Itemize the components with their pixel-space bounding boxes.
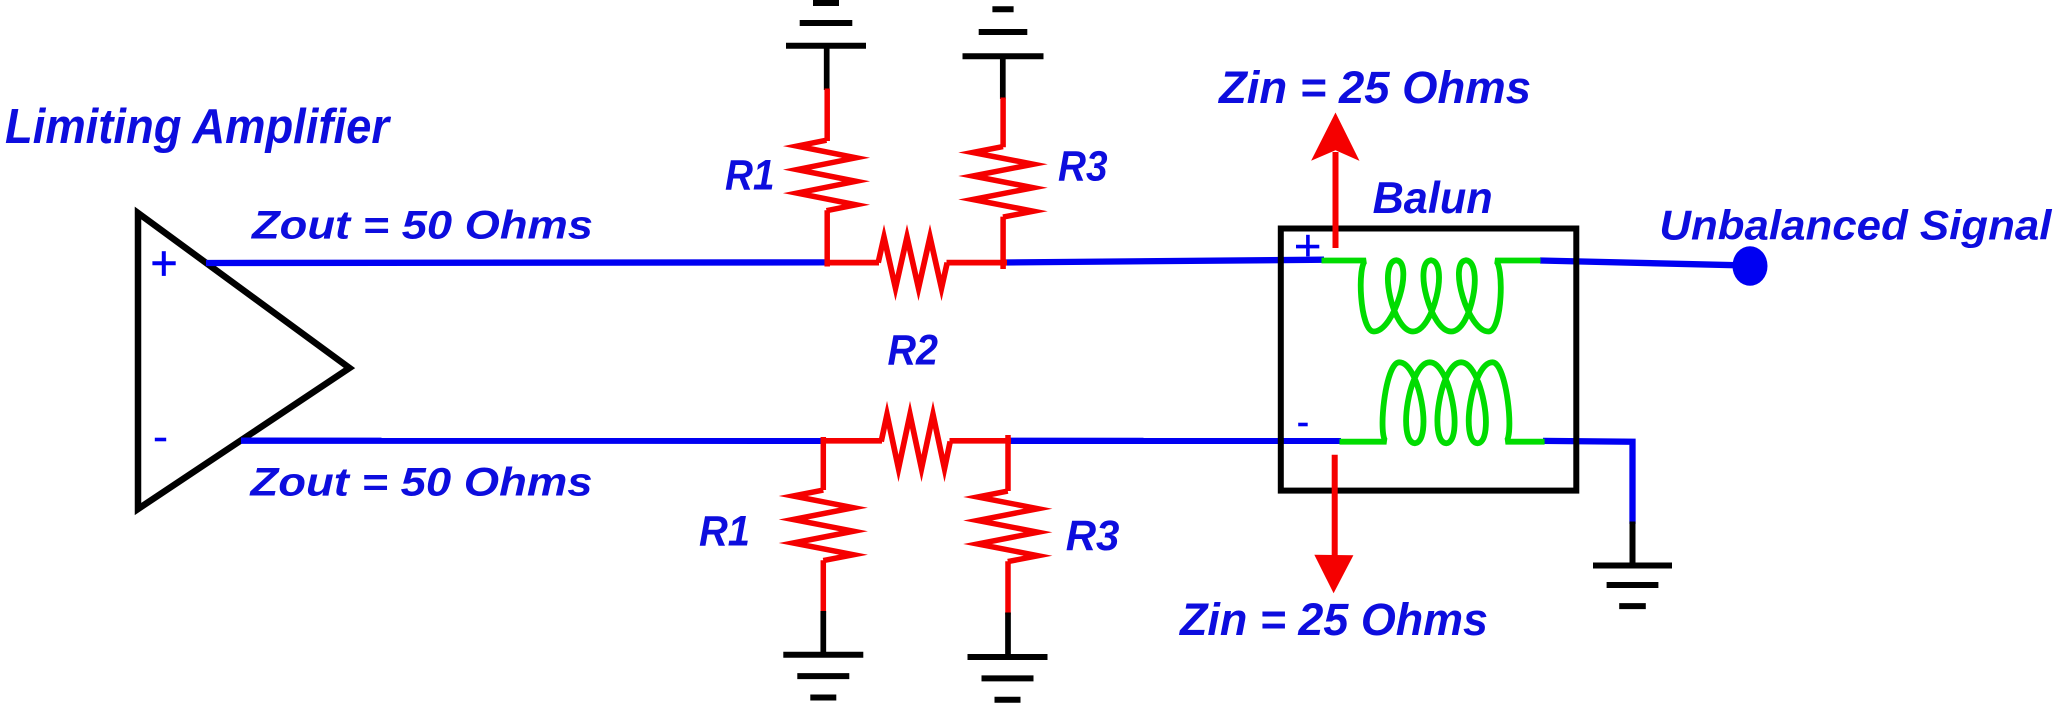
wire R3 top lead — [1000, 98, 1006, 148]
op-amp + input pin label — [152, 261, 175, 265]
wire lower R3 top lead — [1005, 435, 1011, 491]
svg-text:Zin = 25 Ohms: Zin = 25 Ohms — [1178, 594, 1488, 645]
wire: balun to unbalanced output — [1540, 261, 1740, 266]
wire lower R3 bottom lead — [1005, 561, 1011, 614]
svg-text:Limiting Amplifier: Limiting Amplifier — [5, 99, 392, 154]
Zin arrow down (impedance looking into balun -) — [1332, 455, 1338, 556]
ground G3 (bottom of lower R1) — [783, 652, 863, 658]
resistor R2 (top) — [878, 237, 947, 288]
wire: black stub to ground G3 — [820, 611, 826, 655]
wire: black stub to ground G4 — [1005, 613, 1011, 658]
wire: G1 stub to R1 — [824, 46, 830, 90]
resistor R1 (top) — [797, 140, 856, 211]
wire: amp + output to node A (top) — [206, 259, 826, 266]
ground G4 (bottom of lower R3) — [968, 654, 1048, 660]
Zin arrow up (impedance looking into balun +) — [1333, 152, 1339, 248]
svg-text:R3: R3 — [1058, 142, 1108, 189]
wire: node A to R2 left lead (red) — [825, 260, 880, 266]
wire: node B to balun + terminal (top) — [1004, 260, 1324, 263]
transformer T1 balun box — [1281, 229, 1577, 491]
op-amp U1 (limiting amplifier) — [138, 213, 350, 509]
svg-text:Unbalanced Signal: Unbalanced Signal — [1659, 202, 2053, 249]
svg-text:Zin = 25 Ohms: Zin = 25 Ohms — [1217, 62, 1531, 113]
svg-text:R2: R2 — [888, 327, 939, 374]
balun + terminal label — [1296, 245, 1319, 249]
op-amp - input pin label — [155, 438, 166, 442]
resistor R2 (bottom) — [881, 415, 950, 469]
wire: node C to lower R2 left lead (red) — [823, 438, 882, 444]
wire R1 top lead — [824, 89, 830, 142]
ground G5 (unbalanced side) — [1593, 563, 1672, 569]
svg-text:Zout = 50 Ohms: Zout = 50 Ohms — [251, 204, 593, 248]
wire lower R1 top lead — [821, 437, 827, 490]
wire: G2 stub to R3 — [1000, 56, 1006, 99]
inductor L1 (balun primary coil) — [1322, 260, 1541, 331]
svg-text:Zout = 50 Ohms: Zout = 50 Ohms — [249, 460, 592, 504]
resistor R1 (bottom) — [793, 490, 853, 560]
ground G1 (top of R1) — [786, 43, 866, 49]
wire: amp - output to node C (bottom) — [241, 438, 825, 444]
wire: balun bottom to ground stub — [1543, 441, 1633, 524]
svg-text:R1: R1 — [699, 508, 750, 555]
svg-text:Balun: Balun — [1373, 174, 1493, 223]
wire: lower R2 right lead to node D (red) — [950, 438, 1012, 444]
inductor L2 (balun secondary coil) — [1340, 362, 1545, 443]
wire: node D to balun - terminal (bottom) — [1008, 438, 1341, 444]
balun - terminal label — [1298, 423, 1308, 427]
wire R3 bottom lead to node — [1000, 217, 1006, 269]
svg-text:R1: R1 — [725, 152, 775, 199]
resistor R3 (bottom) — [978, 491, 1038, 561]
wire R1 bottom lead to node — [824, 210, 830, 266]
wire: R2 right lead to node B (red) — [947, 260, 1008, 266]
wire: black segment to ground G5 — [1630, 522, 1636, 565]
resistor R3 (top) — [973, 147, 1034, 218]
svg-text:R3: R3 — [1066, 512, 1120, 559]
ground G2 (top of R3) — [963, 53, 1044, 59]
wire lower R1 bottom lead — [821, 560, 827, 613]
node: unbalanced output terminal dot — [1733, 246, 1768, 286]
